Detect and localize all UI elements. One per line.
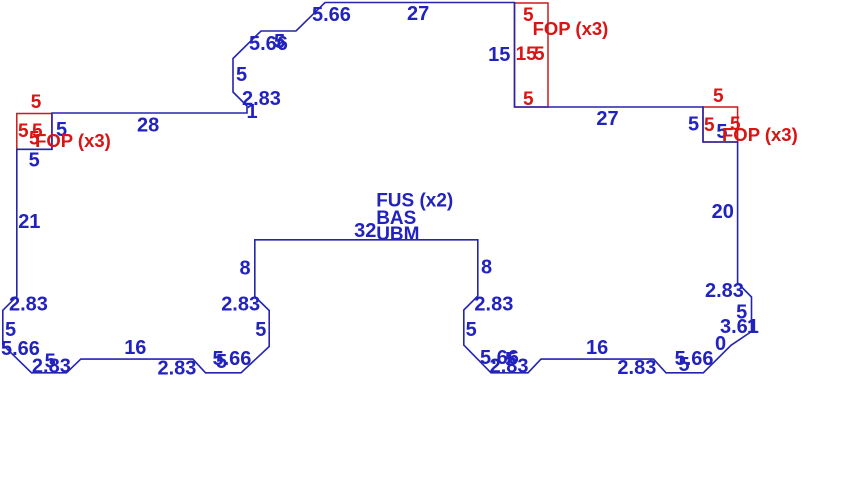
svg-text:5: 5 [713, 86, 724, 107]
svg-text:5: 5 [523, 89, 534, 110]
svg-text:1: 1 [247, 101, 258, 123]
svg-text:2.83: 2.83 [158, 358, 197, 380]
svg-text:FOP (x3): FOP (x3) [35, 130, 111, 151]
svg-text:2.83: 2.83 [32, 356, 71, 378]
svg-text:2.83: 2.83 [9, 294, 48, 316]
svg-text:8: 8 [481, 257, 492, 279]
svg-text:27: 27 [407, 3, 429, 25]
svg-text:15: 15 [488, 44, 510, 66]
svg-text:5: 5 [216, 351, 227, 373]
svg-text:FOP (x3): FOP (x3) [533, 18, 609, 39]
svg-text:28: 28 [137, 115, 159, 137]
svg-text:5: 5 [255, 319, 266, 341]
svg-text:5: 5 [236, 64, 247, 86]
svg-text:5.66: 5.66 [312, 4, 351, 26]
svg-text:16: 16 [124, 337, 146, 359]
svg-text:5: 5 [534, 44, 545, 65]
svg-text:21: 21 [18, 211, 40, 233]
svg-text:5: 5 [31, 92, 42, 113]
svg-text:1: 1 [747, 316, 758, 338]
svg-text:5: 5 [274, 31, 285, 53]
svg-text:UBM: UBM [376, 224, 419, 245]
svg-text:27: 27 [596, 108, 618, 130]
svg-text:2.83: 2.83 [221, 294, 260, 316]
svg-text:FOP (x3): FOP (x3) [722, 124, 798, 145]
svg-text:20: 20 [712, 201, 734, 223]
svg-text:8: 8 [240, 257, 251, 279]
svg-text:5: 5 [18, 121, 29, 142]
svg-text:5: 5 [679, 354, 690, 376]
svg-text:5: 5 [736, 302, 747, 324]
svg-text:2.83: 2.83 [617, 357, 656, 379]
svg-text:2.83: 2.83 [490, 356, 529, 378]
svg-text:5: 5 [466, 319, 477, 341]
svg-text:2.83: 2.83 [705, 280, 744, 302]
svg-text:16: 16 [586, 337, 608, 359]
svg-text:5: 5 [688, 114, 699, 136]
svg-text:5: 5 [704, 115, 715, 136]
svg-text:32: 32 [354, 220, 376, 242]
svg-text:2.83: 2.83 [474, 294, 513, 316]
svg-text:5: 5 [29, 150, 40, 172]
